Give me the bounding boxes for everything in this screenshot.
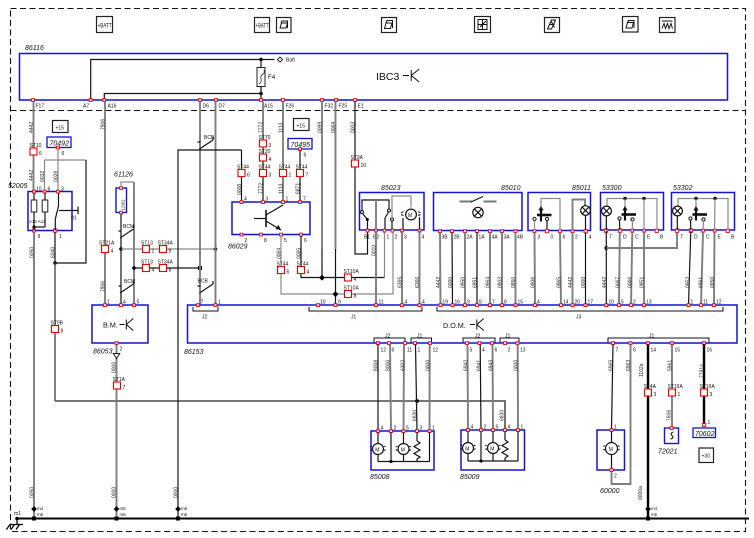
svg-text:85010: 85010 [501, 185, 521, 192]
wire 0064 from 86029 pin 5 to DOM pin 9 [277, 231, 394, 294]
svg-text:4442: 4442 [29, 170, 35, 181]
svg-text:2: 2 [395, 235, 398, 241]
wire 6365 from 85023 pin 3 to DOM pin 4 [398, 231, 404, 305]
svg-text:14: 14 [651, 348, 657, 354]
svg-text:4: 4 [244, 197, 247, 203]
svg-text:2: 2 [394, 426, 397, 432]
svg-text:2: 2 [614, 474, 617, 480]
connector ST44 pin 6 on 0008 wire [237, 165, 250, 179]
connector ST13 pin 1 [141, 241, 155, 255]
svg-text:1: 1 [678, 392, 681, 398]
svg-text:m1: m1 [14, 511, 21, 517]
svg-text:7772: 7772 [259, 183, 265, 194]
junction H1 on D7 wire [214, 247, 218, 251]
svg-text:1: 1 [387, 235, 390, 241]
wire from 61126 top to riser [121, 182, 134, 187]
svg-text:0066: 0066 [628, 277, 634, 288]
svg-text:1: 1 [521, 425, 524, 431]
svg-text:+15: +15 [56, 126, 65, 132]
DOM bottom connector bracket J1 right [608, 334, 709, 343]
svg-text:0065: 0065 [297, 248, 303, 259]
DOM bottom connector bracket J1 mid [500, 334, 519, 343]
wire 4442 from F17 to 52005 pin 10 [29, 102, 35, 192]
washer pump unit 85008 [370, 426, 435, 482]
icon +15 right [294, 119, 310, 131]
svg-text:m6: m6 [181, 512, 188, 517]
connector ST44 pin 4 on 0065 wire [297, 262, 310, 276]
svg-text:0: 0 [551, 235, 554, 241]
connector ST70 pin 3 [259, 135, 272, 149]
svg-text:2: 2 [120, 347, 123, 353]
svg-text:60000: 60000 [600, 488, 620, 495]
DOM bottom connector bracket J2 mid [463, 334, 495, 343]
connector ST10A pin 4 on H1 [344, 269, 360, 283]
resistor zigzag inside 85009 [502, 432, 508, 462]
svg-text:6: 6 [48, 187, 51, 193]
svg-text:1: 1 [432, 426, 435, 432]
svg-text:1: 1 [691, 300, 694, 306]
junction at fuse top [259, 58, 263, 62]
wire from DOM 1 to 85008 pin 3 [416, 345, 418, 432]
svg-text:0000: 0000 [174, 487, 180, 498]
wire 5961 7606 from DOM 15 to 72021 [667, 345, 674, 429]
svg-text:86053: 86053 [93, 349, 113, 356]
svg-text:8: 8 [504, 300, 507, 306]
connector ST9B pin 9 [51, 321, 64, 335]
svg-text:0000: 0000 [514, 360, 520, 371]
svg-text:D: D [694, 235, 698, 241]
svg-text:86153: 86153 [184, 349, 204, 356]
svg-text:61126: 61126 [114, 172, 133, 179]
module D.O.M. 86153 [184, 305, 737, 356]
svg-text:m6: m6 [120, 512, 127, 517]
junction H2 on D6 wire [198, 266, 202, 270]
svg-text:3: 3 [404, 235, 407, 241]
svg-text:F26: F26 [286, 104, 295, 110]
selector switch 53300 [618, 199, 636, 231]
svg-text:0000: 0000 [112, 362, 118, 373]
svg-text:F17: F17 [36, 104, 45, 110]
svg-text:M: M [609, 447, 613, 453]
icon +BATT top left [97, 17, 113, 33]
svg-text:86029: 86029 [228, 244, 248, 251]
svg-text:0067: 0067 [616, 277, 622, 288]
component 61126 resistor 120ohm [114, 172, 133, 214]
wire 6963 from DOM 6 to 60000 pin 2 [612, 345, 633, 485]
transistor symbol inside 86029 [254, 205, 283, 230]
connector ST13 pin 4 [141, 260, 155, 274]
svg-text:6963: 6963 [626, 360, 632, 371]
svg-text:8: 8 [354, 294, 357, 300]
junction 0064 with F25 wire [333, 291, 339, 297]
connector ST1A pin 7 [113, 377, 126, 391]
svg-text:J1: J1 [417, 334, 423, 340]
IBC3 pins F17 A7 A16 D6 D7 A15 F26 F32 F25 E1 [32, 99, 364, 110]
svg-text:7: 7 [306, 173, 309, 179]
junction H1 on BM pin4 wire [119, 247, 123, 251]
wire 0950 from 85010 2A to DOM pin 9 [461, 233, 467, 306]
svg-text:2A: 2A [467, 235, 474, 241]
svg-text:72021: 72021 [658, 449, 678, 456]
svg-text:1102a: 1102a [639, 363, 645, 377]
wire 0028 to 52005 pin 3 [54, 160, 60, 192]
svg-text:7906: 7906 [101, 281, 107, 292]
connector 70602 [693, 420, 716, 438]
svg-text:+30: +30 [702, 454, 711, 460]
svg-text:6871: 6871 [296, 183, 302, 194]
svg-text:0000: 0000 [448, 277, 454, 288]
svg-text:0050: 0050 [30, 247, 36, 258]
svg-text:6965: 6965 [609, 360, 615, 371]
wire D7 from IBC3 to DOM pin 1 [215, 102, 217, 306]
svg-text:M: M [375, 448, 379, 454]
junction H2 on BM pin5 wire [132, 266, 136, 270]
wire 4442 from 85010 3B to DOM pin 19 [436, 233, 442, 306]
svg-text:0032: 0032 [40, 171, 46, 182]
wire 0050 from 52005 pin 9 to ground bus [30, 232, 36, 519]
svg-text:1: 1 [614, 425, 617, 431]
svg-text:6: 6 [247, 173, 250, 179]
wire 8008 from DOM 12 to 85008 pin 4 [374, 345, 380, 432]
motor M1 inside 85008 [370, 433, 385, 462]
svg-text:85008: 85008 [370, 474, 390, 481]
svg-text:6: 6 [39, 151, 42, 157]
svg-text:8: 8 [264, 238, 267, 244]
ground wire vertical x178 from corner to bus [174, 150, 242, 519]
icon resistor wave [660, 18, 676, 33]
text IBC3 with key symbol [376, 69, 419, 83]
svg-text:3: 3 [710, 392, 713, 398]
switch with thermal contact inside 52005 [55, 193, 78, 231]
svg-text:5: 5 [137, 300, 140, 306]
svg-text:5961: 5961 [668, 360, 674, 371]
connector ST10A pin 8 on H2 [344, 286, 360, 300]
svg-text:6830: 6830 [500, 410, 506, 421]
svg-text:6: 6 [563, 235, 566, 241]
svg-text:19: 19 [443, 300, 449, 306]
svg-text:12: 12 [433, 348, 439, 354]
svg-text:7: 7 [616, 348, 619, 354]
wire 0064 from F25 down to DOM pin 9 [331, 102, 337, 306]
svg-text:6830: 6830 [413, 410, 419, 421]
svg-text:4442: 4442 [602, 277, 608, 288]
svg-text:+BATT: +BATT [256, 24, 269, 30]
wire 0003 from E1 to 85023 pin B1 [351, 102, 368, 255]
wire 0066 from 53300 C to DOM pin 2 [628, 233, 634, 306]
svg-text:0950: 0950 [511, 277, 517, 288]
wire 0010 from 85023 B2 to DOM pin 11 [372, 231, 378, 305]
svg-text:0000: 0000 [581, 277, 587, 288]
svg-text:C: C [706, 235, 710, 241]
wire 1113 from F26 to 86029 pin 1 [279, 102, 285, 203]
svg-text:9006: 9006 [386, 360, 392, 371]
svg-text:7791a: 7791a [700, 364, 706, 378]
wire 6961 from 53302 C to DOM pin 11 [699, 233, 705, 306]
svg-text:0000a: 0000a [638, 486, 644, 500]
svg-text:16: 16 [707, 348, 713, 354]
svg-text:0099: 0099 [318, 122, 324, 133]
svg-text:13: 13 [646, 300, 652, 306]
wire 6942 from DOM 5 to 85009 pin 4 [464, 345, 470, 431]
svg-text:2: 2 [508, 348, 511, 354]
svg-text:4: 4 [482, 348, 485, 354]
svg-text:C: C [635, 235, 639, 241]
svg-text:11: 11 [379, 300, 384, 306]
svg-text:1: 1 [152, 249, 155, 255]
svg-text:4442: 4442 [568, 277, 574, 288]
selector switch 53302 [689, 199, 707, 231]
internal park switch wiring 85023 [361, 196, 412, 229]
svg-text:9: 9 [338, 300, 341, 306]
svg-text:6: 6 [304, 238, 307, 244]
motor M2 inside 85009 [485, 432, 500, 462]
wire 0000 from 85010 2B to DOM pin 16 [448, 233, 454, 306]
wire 0099 from F32 down to H1 junction [318, 102, 324, 278]
svg-text:4A: 4A [492, 235, 499, 241]
svg-text:85011: 85011 [572, 185, 591, 192]
svg-text:D.O.M.: D.O.M. [443, 321, 466, 330]
wire 7791 from DOM 16 to 70602 [700, 345, 706, 426]
heater pump unit 60000 [597, 425, 625, 496]
svg-text:B1: B1 [364, 235, 370, 241]
svg-text:0965: 0965 [557, 277, 563, 288]
svg-text:6: 6 [304, 153, 307, 159]
svg-text:5: 5 [479, 300, 482, 306]
connector ST21A pin 4 [99, 241, 115, 255]
resistor zigzag inside 85008 [414, 433, 420, 462]
svg-text:9: 9 [38, 234, 41, 240]
svg-text:1113: 1113 [279, 122, 285, 133]
svg-text:J2: J2 [475, 334, 481, 340]
svg-text:9: 9 [169, 249, 172, 255]
svg-text:2: 2 [484, 425, 487, 431]
wire 0050 from BM pin 2 to ground [112, 345, 120, 519]
component 52005 heater resistors unit [8, 183, 72, 240]
svg-text:6040: 6040 [51, 247, 57, 258]
svg-text:A15: A15 [264, 104, 273, 110]
svg-text:3: 3 [654, 392, 657, 398]
lamp circuit inside 85011 [573, 200, 591, 231]
svg-text:4: 4 [537, 300, 540, 306]
svg-text:4: 4 [422, 300, 425, 306]
svg-text:9: 9 [61, 329, 64, 335]
svg-text:17: 17 [588, 300, 594, 306]
switch contact symbol inside 85010 [460, 197, 497, 203]
splice m5 m6 on BM ground wire [114, 506, 126, 521]
connector ST34A pin 9 [158, 241, 174, 255]
icon crossed box [475, 17, 491, 33]
connector ST4A pin 3 [644, 384, 657, 398]
svg-text:0906: 0906 [531, 277, 537, 288]
svg-text:J1: J1 [351, 315, 357, 321]
wire from junction down to long run [54, 263, 56, 401]
wire H1 to D7 [121, 248, 216, 250]
motor M inside 85023 [401, 209, 421, 229]
connector ST34A pin 8 [158, 260, 174, 274]
wire 0964 from 85010 4A to DOM pin 7 [486, 233, 492, 306]
svg-text:m5: m5 [181, 506, 188, 511]
svg-text:3B: 3B [442, 235, 449, 241]
svg-text:M: M [465, 447, 469, 453]
svg-text:M: M [401, 448, 405, 454]
svg-text:m4: m4 [651, 506, 658, 511]
wire 6302 from DOM 11 to 85008 pin 5 [401, 345, 407, 432]
svg-text:A12 A12: A12 A12 [29, 219, 46, 224]
svg-text:2: 2 [633, 300, 636, 306]
svg-text:0003: 0003 [351, 122, 357, 133]
svg-text:4442: 4442 [436, 277, 442, 288]
svg-text:2: 2 [575, 235, 578, 241]
connector ST20 pin 4 [259, 149, 272, 163]
svg-text:IBC3: IBC3 [376, 71, 400, 83]
switch BCM upper [119, 224, 135, 238]
washer pump unit 85009 [460, 425, 525, 482]
selector switch inside 85011 [533, 199, 560, 231]
svg-text:2: 2 [245, 238, 248, 244]
svg-text:+BATT: +BATT [98, 24, 112, 30]
wire 6965 from DOM 7 to 60000 pin 1 [609, 345, 615, 431]
wire 0065 from 86029 pin 6 to 85023 pin 1 riser [297, 231, 385, 278]
svg-text:4B: 4B [517, 235, 524, 241]
connector ST19A pin 1 [668, 384, 684, 398]
wire 0000 from DOM 12b to 85008 pin 1 [426, 345, 432, 432]
svg-text:A7: A7 [83, 104, 89, 110]
wire 0000 from DOM 13 to 85009 pin 1 [514, 345, 520, 431]
svg-text:6: 6 [287, 270, 290, 276]
wire 0032 to 52005 pin 6 [40, 160, 46, 192]
DOM bottom connector bracket J1 left [411, 334, 432, 343]
svg-text:0950: 0950 [710, 277, 716, 288]
svg-text:1: 1 [59, 234, 62, 240]
svg-text:B.M.: B.M. [103, 321, 118, 330]
svg-text:4: 4 [123, 300, 126, 306]
svg-text:M: M [408, 213, 412, 219]
svg-text:2B: 2B [454, 235, 461, 241]
svg-text:0000: 0000 [112, 487, 118, 498]
wire from 61126 bottom to BM pin 4 [120, 214, 122, 305]
svg-text:4: 4 [152, 268, 155, 274]
svg-text:85023: 85023 [381, 185, 401, 192]
connector ST44 pin 6 on 0064 wire [277, 262, 290, 276]
svg-text:9: 9 [467, 300, 470, 306]
wire 6040 from 52005 pin 1 down [51, 232, 57, 263]
wiper motor unit 85023 [360, 185, 425, 241]
switch BCB lower between D6 D7 [198, 279, 214, 294]
wire riser from split node down to pin1 junction [55, 160, 86, 263]
svg-text:0008: 0008 [237, 184, 243, 195]
resistor R1 inside 52005 [31, 193, 37, 227]
wire 6951 from 85010 1A to DOM pin 5 [473, 233, 479, 306]
svg-text:120Ω: 120Ω [121, 199, 126, 211]
svg-text:Γ: Γ [610, 235, 613, 241]
svg-text:1: 1 [289, 173, 292, 179]
svg-text:6961: 6961 [699, 277, 705, 288]
connector ST10 pin 6 [30, 143, 43, 157]
switch BCB upper between D6 D7 [198, 135, 215, 149]
ground symbol m1 [7, 511, 24, 530]
svg-text:D6: D6 [203, 104, 210, 110]
svg-text:86116: 86116 [25, 45, 44, 52]
svg-text:8: 8 [169, 268, 172, 274]
wire from 70492 down and split node [45, 149, 87, 160]
box IBC3 [20, 54, 728, 101]
internal rail and contacts 53300 [607, 197, 657, 230]
svg-text:16: 16 [455, 300, 461, 306]
svg-text:0903: 0903 [498, 277, 504, 288]
svg-text:Γ: Γ [681, 235, 684, 241]
wire 7906 from A16 to BM pin 1 [101, 102, 107, 306]
svg-text:J2: J2 [202, 315, 208, 321]
icon document C [623, 17, 639, 33]
splice m4 m6 on 0000a wire [645, 506, 657, 521]
svg-text:4: 4 [471, 425, 474, 431]
svg-text:0951: 0951 [640, 277, 646, 288]
svg-text:3: 3 [538, 235, 541, 241]
DOM top pins [197, 300, 722, 307]
transistor module 86029 [228, 197, 310, 251]
svg-text:10: 10 [361, 163, 367, 169]
wiper switch 85010 [434, 185, 524, 241]
wire D6 from IBC3 to DOM pin 7 [199, 102, 201, 306]
svg-text:1: 1 [218, 300, 221, 306]
DOM top connector bracket J3 [437, 307, 723, 321]
switch BCM lower [119, 279, 136, 293]
relay output 70492 [47, 137, 71, 157]
motor M inside 60000 [603, 432, 619, 469]
wire 4442 from 85011 pin 2 to DOM pin 20 [568, 233, 574, 306]
svg-text:BCB: BCB [198, 279, 209, 285]
svg-text:53300: 53300 [602, 185, 622, 192]
junction 0065 with F32 wire [319, 275, 325, 281]
tail lamp unit 53300 [601, 185, 665, 241]
ground bus line [17, 518, 749, 520]
wire IBC3 internal from pin A16 to fuse bottom [104, 94, 261, 100]
wire H2 to D6 [134, 267, 200, 269]
svg-text:52005: 52005 [8, 183, 28, 190]
svg-text:D7: D7 [219, 104, 226, 110]
wire 0951 from 53300 E to DOM pin 13 [640, 233, 646, 306]
icon document A [277, 18, 292, 33]
svg-text:70602: 70602 [695, 431, 715, 438]
svg-text:6302: 6302 [401, 360, 407, 371]
svg-text:4: 4 [508, 425, 511, 431]
svg-text:4: 4 [589, 235, 592, 241]
svg-text:8008: 8008 [374, 360, 380, 371]
connector ST9A pin 10 on E1 wire [351, 155, 367, 169]
svg-text:5: 5 [284, 238, 287, 244]
wire 6941 from DOM 4 to 85009 pin 2 [477, 345, 483, 431]
icon fuse-pull [545, 18, 560, 33]
svg-text:6951: 6951 [473, 277, 479, 288]
connector ST19A pin 3 [700, 384, 716, 398]
svg-text:15: 15 [675, 348, 681, 354]
svg-text:5: 5 [496, 425, 499, 431]
connector ST44 pin 3 on A15 wire [259, 165, 272, 179]
svg-text:4: 4 [307, 270, 310, 276]
icon +30 [699, 448, 714, 463]
svg-text:7906: 7906 [101, 119, 107, 130]
svg-text:1113: 1113 [279, 183, 285, 194]
svg-text:4: 4 [405, 300, 408, 306]
svg-text:1: 1 [708, 420, 711, 426]
svg-text:0064: 0064 [331, 122, 337, 133]
icon +BATT second [255, 18, 270, 33]
svg-text:6943: 6943 [489, 360, 495, 371]
svg-text:20: 20 [575, 300, 581, 306]
internal rail and contacts 53302 [678, 197, 728, 230]
svg-text:3: 3 [420, 426, 423, 432]
svg-text:m6: m6 [37, 512, 44, 517]
